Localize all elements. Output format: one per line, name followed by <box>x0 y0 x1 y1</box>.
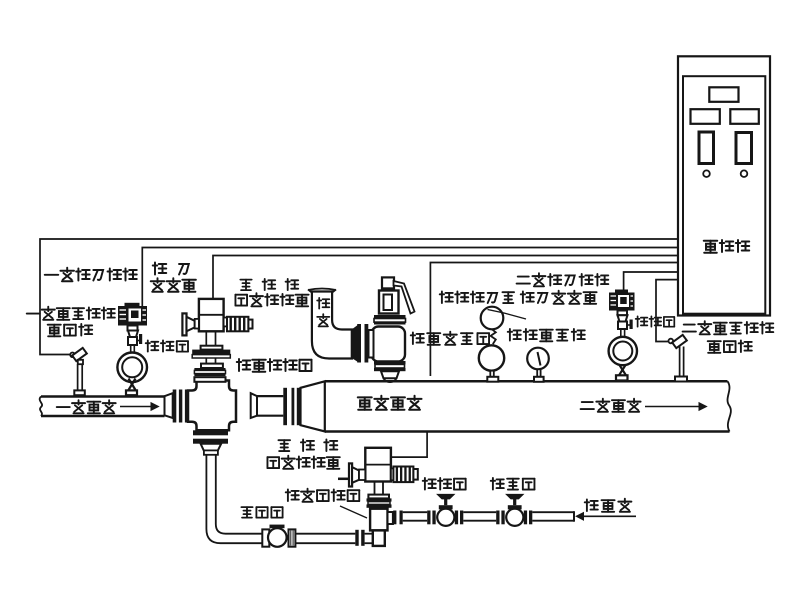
label: 节流阀 <box>423 478 466 490</box>
pressure gauge dial <box>481 307 504 330</box>
gauge cock <box>491 329 496 344</box>
safety valve spring housing <box>379 291 399 314</box>
outlet stub pipe <box>257 396 283 416</box>
thermowell 1 base flange <box>74 390 85 395</box>
siphon loop 1 <box>117 353 147 383</box>
control cabinet inner panel <box>683 76 765 314</box>
wire: secondary pressure transmitter signal to cabinet <box>624 272 678 291</box>
safety valve inlet cone <box>352 327 358 361</box>
siphon loop 1 lower crossing <box>129 379 136 391</box>
label: 二次蒸汽 <box>581 399 641 412</box>
thermowell 2 base flange <box>675 377 687 382</box>
safety valve lever <box>394 281 415 314</box>
gauge leader line <box>488 310 527 320</box>
flange pair after control valve <box>393 511 403 525</box>
pipe: control valve to throttle valve <box>403 512 428 521</box>
thermowell 1 neck <box>78 360 83 364</box>
throttle valve handle <box>438 495 454 506</box>
throttle valve body <box>437 509 454 526</box>
flange set left of valve <box>173 390 189 423</box>
desuperheating pressure-reducing valve body <box>188 381 236 431</box>
flow arrow primary steam <box>120 403 159 411</box>
label: 止回阀 <box>241 507 282 517</box>
thermowell 1 head <box>72 348 87 361</box>
valve bottom outlet cone <box>201 444 222 455</box>
flange pair before control valve <box>355 530 364 546</box>
gauge base <box>487 377 498 382</box>
wire: secondary temperature detection signal to cabinet <box>656 280 678 342</box>
throttle valve bonnet <box>439 505 453 509</box>
cabinet meter left <box>691 109 720 124</box>
label: 电动执行器 1 <box>235 293 308 306</box>
label: 热电阻 2 <box>708 340 752 352</box>
wire: primary pressure transmitter signal to cabinet <box>142 248 677 307</box>
reducer cone left <box>165 393 173 418</box>
thermowell 2 connector <box>669 339 674 344</box>
label: 现场温度计 <box>508 329 585 341</box>
check valve body <box>268 525 287 547</box>
throttle valve left flange <box>427 511 435 525</box>
siphon loop 2 base <box>616 375 628 380</box>
control valve body <box>370 509 393 531</box>
label: 一次压力检测 <box>45 268 137 282</box>
control valve flange stack <box>367 495 392 508</box>
pipe break symbol left end <box>40 397 42 417</box>
vent pipe elbow <box>312 292 352 359</box>
needle valve 2 handle <box>627 320 633 330</box>
impulse tube 2 <box>621 329 625 338</box>
thermowell 1 connector <box>70 353 75 358</box>
actuator 2 body <box>365 448 391 482</box>
pipe: steam main pipeline <box>325 381 730 431</box>
transmitter 2 body <box>609 290 635 311</box>
stop valve handle <box>507 495 523 506</box>
safety valve bonnet <box>374 315 406 325</box>
needle valve 1 handle <box>137 334 142 344</box>
actuator 1 handwheel <box>182 313 199 335</box>
needle valve 2 body <box>618 322 627 330</box>
valve bottom flange <box>193 430 228 443</box>
pipe break symbol right end <box>728 381 731 431</box>
actuator 2 handwheel <box>338 463 365 486</box>
label: 二次温度检测 <box>683 321 774 334</box>
label: 一次蒸汽 <box>57 400 116 413</box>
actuator 1 stem and yoke <box>192 331 230 368</box>
cabinet meter right <box>730 109 759 124</box>
pipe stub into control valve <box>365 534 373 544</box>
leader line to control valve <box>340 506 367 518</box>
label: 给水调节阀 <box>286 489 360 502</box>
expanding cone to steam pipe <box>301 381 325 431</box>
safety valve inlet flanges <box>357 324 368 363</box>
cabinet recorder right <box>736 133 752 164</box>
label: 减温减压阀 <box>237 359 312 372</box>
transmitter 1 neck <box>128 326 138 331</box>
safety valve outlet flange <box>374 361 406 371</box>
transmitter 1 body <box>118 303 147 326</box>
label: 针形阀 2 <box>636 316 675 326</box>
control valve stem <box>375 482 384 495</box>
wire: feedwater actuator control signal to cabinet (upper run) <box>430 263 677 377</box>
wire: electric actuator 1 control signal to cabinet <box>213 256 678 299</box>
label: 蒸汽管道 <box>358 396 422 410</box>
cabinet recorder left <box>699 132 714 164</box>
label: cabinet 热控柜 <box>704 240 750 253</box>
valve bonnet flange stack <box>194 368 225 382</box>
label: 一次温度检测 <box>27 307 115 320</box>
flow arrow desuperheating water <box>576 513 636 520</box>
stop valve left flange <box>496 511 504 525</box>
gauge siphon ring <box>479 345 504 370</box>
check valve left flange <box>262 529 269 546</box>
control valve bottom stub <box>373 530 385 546</box>
stop valve right flange <box>524 511 533 525</box>
reducer cone right of valve <box>251 393 257 418</box>
pipe: stop valve to water inlet <box>532 511 574 522</box>
safety valve top stem <box>382 277 394 288</box>
thermometer dial <box>527 348 549 370</box>
safety valve outlet tail <box>381 371 399 382</box>
label: 二次压力检测 <box>517 273 609 286</box>
pipe: desuperheating water riser <box>206 455 262 543</box>
label: 弹簧安全阀 <box>411 332 489 345</box>
actuator 1 body <box>199 299 224 331</box>
label: 减温水 <box>585 499 632 512</box>
pipe: primary steam inlet pipe <box>41 397 165 417</box>
pipe: throttle valve to stop valve <box>463 512 496 521</box>
transmitter 2 process connection <box>618 315 628 321</box>
label: 电动执行器 2 <box>267 456 339 469</box>
safety valve body <box>369 327 406 362</box>
thermometer stem <box>537 369 540 377</box>
pipe: check valve to control valve <box>295 534 355 544</box>
thermowell 2 head <box>672 335 687 348</box>
wire: primary temperature detection signal to cabinet <box>40 239 678 355</box>
label: 热电阻 <box>48 324 92 336</box>
cabinet knob right <box>741 170 748 177</box>
needle valve 1 body <box>128 337 137 345</box>
label: 压 力 变送器 <box>151 263 196 292</box>
siphon loop 1 base <box>126 390 137 395</box>
cabinet knob left <box>703 170 710 177</box>
label: 针形阀 1 <box>146 340 188 351</box>
label: 压力变送器 2 <box>521 291 597 304</box>
label: 直 行 程 1 <box>240 279 298 290</box>
stop valve bonnet <box>508 505 522 509</box>
actuator 2 motor <box>391 467 418 483</box>
actuator 1 motor <box>224 317 253 332</box>
flange set before expander <box>283 388 300 425</box>
label: 直 行 程 2 <box>278 439 337 451</box>
vent pipe flare <box>308 289 336 293</box>
siphon loop 2 lower crossing <box>619 364 626 375</box>
transmitter 1 process connection <box>128 331 138 338</box>
label: 排空 (vertical) <box>317 298 329 326</box>
control cabinet outer enclosure <box>678 56 770 315</box>
stop valve body <box>506 509 523 526</box>
label: 截止阀 <box>491 478 535 490</box>
impulse tube 1 <box>131 345 135 355</box>
thermowell 1 stem <box>78 364 83 390</box>
cabinet display window <box>709 87 738 102</box>
transmitter 2 neck <box>618 311 628 316</box>
flow arrow secondary steam <box>645 403 707 411</box>
label: 现场压力表 <box>440 291 514 303</box>
thermowell 2 stem <box>680 347 684 377</box>
gauge stem <box>490 371 494 377</box>
siphon loop 2 <box>609 337 637 365</box>
check valve right flange <box>289 529 296 546</box>
thermometer base <box>534 377 544 382</box>
throttle valve right flange <box>455 511 464 525</box>
wire: feedwater actuator control signal (lower run) <box>391 432 427 457</box>
